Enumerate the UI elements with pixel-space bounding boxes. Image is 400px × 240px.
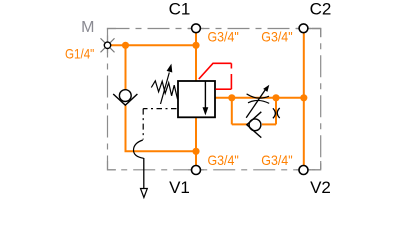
- orifice on bypass right vertical: [273, 108, 275, 118]
- red pilot line dashed vertical: [230, 63, 232, 68]
- node: junction V1 line / bottom horizontal: [192, 148, 199, 155]
- svg-text:G3/4": G3/4": [208, 29, 239, 45]
- wire: left branch vertical lower (from CV1 down): [125, 105, 127, 151]
- red pilot line horizontal to valve: [216, 88, 232, 90]
- boundary solid stubs at ports: [108, 29, 312, 170]
- check valve CV2 (bypass, horizontal): [249, 119, 261, 131]
- wire: C2-V2 main vertical line: [303, 33, 305, 166]
- port V2 circle: [299, 166, 308, 175]
- wire: relief valve outlet vertical to V1: [195, 117, 197, 165]
- red pilot line solid part: [199, 63, 232, 79]
- enclosure dash-dot boundary: [108, 29, 321, 170]
- svg-text:C1: C1: [169, 0, 191, 19]
- svg-text:C2: C2: [310, 0, 332, 19]
- throttle valve FC1 arcs: [247, 94, 269, 98]
- port M plug cross: [101, 38, 115, 52]
- node: junction bypass right: [272, 94, 279, 101]
- wire: bypass loop right vertical with orifice: [275, 98, 277, 125]
- wire: bottom horizontal to V1 node: [125, 150, 197, 152]
- wire: bypass loop bottom right segment: [262, 123, 276, 125]
- relief valve RV1 spring: [151, 81, 177, 100]
- svg-text:M: M: [81, 19, 94, 36]
- svg-text:G3/4": G3/4": [208, 152, 239, 168]
- drain pilot dashed vertical: [142, 109, 144, 140]
- drain hose S-curve over wire: [133, 140, 143, 158]
- svg-text:V1: V1: [169, 178, 190, 197]
- port C1 circle: [192, 24, 201, 33]
- drain pilot dashed horizontal: [143, 108, 176, 110]
- check valve CV1 (left, vertical): [119, 90, 131, 102]
- svg-text:V2: V2: [310, 178, 331, 197]
- node: junction C2 line / side line: [300, 94, 307, 101]
- relief valve RV1 internal flow arrow: [204, 81, 206, 109]
- wire: left branch vertical upper (to check valve CV1): [125, 45, 127, 90]
- node: junction C1 line / M line: [192, 42, 199, 49]
- svg-text:G1/4": G1/4": [65, 46, 94, 62]
- boundary solid segment near C2: [304, 28, 321, 30]
- node: junction bypass left: [228, 94, 235, 101]
- drain arrow (hollow): [141, 189, 148, 198]
- wire: bypass loop bottom left segment: [232, 123, 248, 125]
- svg-text:G3/4": G3/4": [261, 152, 292, 168]
- port C2 circle: [299, 24, 308, 33]
- port V1 circle: [192, 166, 201, 175]
- wire: relief valve side port horizontal to C2 line: [215, 97, 304, 99]
- boundary corner marks: [108, 29, 321, 170]
- throttle valve FC1 adjustment arrow: [246, 89, 266, 118]
- node: junction M line / left branch: [122, 42, 129, 49]
- relief valve RV1 body: [178, 81, 215, 117]
- drain line to tank: [143, 158, 145, 189]
- wire: C1 inlet vertical to relief valve: [195, 33, 197, 81]
- wire: bypass loop left vertical: [231, 98, 233, 125]
- svg-text:G3/4": G3/4": [261, 29, 292, 45]
- port M circle: [104, 42, 110, 48]
- wire: M port horizontal line: [110, 44, 196, 46]
- relief valve RV1 adjustment arrow: [161, 73, 170, 105]
